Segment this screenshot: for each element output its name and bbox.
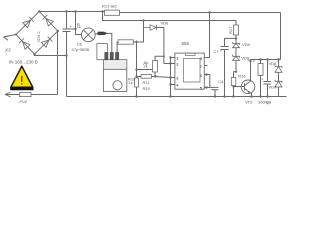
svg-text:C6: C6 <box>77 41 83 46</box>
svg-text:2к: 2к <box>144 64 148 69</box>
wire C6 stub <box>66 12 68 30</box>
capacitor C4 <box>210 87 219 89</box>
wire collector <box>250 60 252 82</box>
resistor R15 <box>258 64 263 76</box>
pin 4 <box>171 84 175 86</box>
wire lamp riser <box>76 12 82 35</box>
diode VD6 <box>144 25 157 30</box>
triac body <box>103 60 126 92</box>
svg-text:IN 160...230 В: IN 160...230 В <box>9 59 38 64</box>
IC inner block <box>184 59 201 83</box>
wire riser y20-y28 <box>143 21 145 28</box>
resistor R12 vertical <box>153 61 158 73</box>
svg-text:+: + <box>261 77 264 82</box>
svg-text:1к: 1к <box>129 80 133 85</box>
node R13 tap <box>101 10 103 12</box>
node R10 rail <box>135 95 137 97</box>
node C8 rail <box>266 95 268 97</box>
svg-text:VD9.2: VD9.2 <box>36 31 41 43</box>
resistor R16 <box>231 78 236 86</box>
zener VD8 <box>233 42 240 48</box>
svg-text:VD8: VD8 <box>242 42 251 47</box>
wire C4 down <box>214 90 216 97</box>
svg-text:+: + <box>70 24 73 29</box>
wire R15 to rail <box>260 76 262 97</box>
triac separator <box>103 68 126 70</box>
node Vcc <box>208 11 210 13</box>
svg-text:1: 1 <box>176 56 179 61</box>
wire VD9 down to R16 <box>234 61 237 78</box>
node C7 rail <box>223 95 225 97</box>
svg-text:47µ*350В: 47µ*350В <box>72 47 90 52</box>
corner dots <box>38 10 40 12</box>
resistor R17 <box>234 25 239 35</box>
wire C6 top plate to riser <box>71 28 76 30</box>
bridge diode lower-left <box>19 38 30 49</box>
svg-text:FU2: FU2 <box>20 99 28 104</box>
wire AC riser from right corner to fuse line <box>57 31 59 95</box>
wire R16 bottom <box>233 86 235 97</box>
svg-text:X3: X3 <box>4 47 11 52</box>
node C7 tap <box>235 37 237 39</box>
wire to VD10 <box>278 60 280 67</box>
wire R10 top <box>136 41 138 79</box>
ferrite bead arrow <box>98 32 108 35</box>
wire minus from bottom corner <box>35 54 67 55</box>
wire C8 down <box>267 84 269 97</box>
lamp EL circle <box>81 28 95 42</box>
wire emitter <box>250 93 252 97</box>
resistor R10 vertical <box>135 78 139 87</box>
pin 5 <box>204 87 210 89</box>
node on riser <box>74 28 76 30</box>
svg-text:C7: C7 <box>214 49 220 54</box>
node R11 right <box>154 75 156 77</box>
ground line <box>67 96 287 98</box>
node R10 y69.5 <box>135 68 137 70</box>
bridge diode lower-right <box>41 37 52 48</box>
pin 7 <box>204 65 207 67</box>
pin 3 <box>171 77 175 79</box>
wire y69.5 <box>137 69 153 71</box>
svg-text:3: 3 <box>176 76 179 81</box>
gnd bus <box>170 58 172 97</box>
wire C7 down <box>224 50 226 97</box>
pin 2 <box>171 63 175 65</box>
bridge diode upper-right <box>42 15 53 26</box>
capacitor C7 <box>221 47 229 50</box>
resistor R14 on gate wire <box>118 40 133 44</box>
resistor R11 horizontal <box>141 75 152 79</box>
bridge rectifier diamond <box>16 11 58 54</box>
wire pin6-pin5 link <box>209 75 211 88</box>
svg-text:2: 2 <box>176 62 179 67</box>
connector X3 arrow top <box>4 36 10 41</box>
IC notch <box>185 53 195 55</box>
node R15 <box>259 58 261 60</box>
+12V line y59.6 <box>251 59 281 61</box>
node C6 minus join <box>65 54 67 56</box>
svg-text:6: 6 <box>200 73 203 78</box>
svg-text:5: 5 <box>200 86 203 91</box>
wire pin6 ext <box>204 74 210 76</box>
svg-text:R10: R10 <box>143 86 151 91</box>
triac tab box <box>97 44 108 60</box>
pin 1 <box>171 57 175 59</box>
svg-text:R16: R16 <box>238 74 246 79</box>
wire R12 bottom <box>154 72 156 77</box>
resistor R13 <box>105 10 120 15</box>
zener VD10 <box>275 65 282 72</box>
wire bead to triac mid pin <box>108 33 112 52</box>
node bus rail <box>169 95 171 97</box>
svg-text:VD9: VD9 <box>269 85 278 90</box>
wire C8 riser <box>267 60 269 82</box>
capacitor C8 <box>264 82 272 85</box>
fuse FU2 <box>20 92 31 96</box>
node lamp riser <box>74 10 76 12</box>
triac top section fill <box>104 60 126 69</box>
node C6 rail <box>65 10 67 12</box>
triac lead stubs <box>105 52 119 59</box>
svg-text:Д6: Д6 <box>75 22 80 28</box>
svg-text:VD6: VD6 <box>161 21 170 26</box>
svg-text:C8: C8 <box>266 100 272 105</box>
svg-text:C4: C4 <box>218 79 224 84</box>
svg-text:R13 8к2: R13 8к2 <box>102 4 117 9</box>
node R16 rail <box>232 95 234 97</box>
pin 8 <box>204 57 209 59</box>
branch rail y20 <box>103 12 237 26</box>
wire R14 to VD6 riser <box>133 28 143 43</box>
svg-text:555: 555 <box>182 41 190 46</box>
svg-text:8: 8 <box>200 56 203 61</box>
wire lamp to bead <box>95 33 98 36</box>
wire R10 bottom <box>136 87 138 97</box>
node VD6 riser top <box>142 19 144 21</box>
svg-text:R11: R11 <box>143 80 150 85</box>
svg-text:+: + <box>220 48 223 53</box>
zener VD11 <box>275 80 282 87</box>
svg-text:VT2: VT2 <box>245 100 253 105</box>
warning triangle <box>11 66 33 87</box>
node R15 rail <box>259 95 261 97</box>
+rail <box>39 11 104 13</box>
triac right pin wire <box>117 42 118 52</box>
wire R17 to VD8 <box>235 35 237 43</box>
svg-text:7: 7 <box>200 64 203 69</box>
triac hole <box>113 81 122 90</box>
node emitter <box>250 95 252 97</box>
wire R11 left lead <box>137 76 142 78</box>
zener VD9 <box>233 55 240 61</box>
wire base <box>234 86 245 88</box>
svg-text:4: 4 <box>176 83 179 88</box>
wire VD10 to VD11 <box>278 72 280 81</box>
transistor VT2 <box>241 80 255 94</box>
wire Vcc riser to pin 8 <box>209 13 211 58</box>
bridge diode upper-left <box>23 17 34 28</box>
wire C7 tap from zener node <box>225 38 237 46</box>
wire input to bridge left corner <box>4 35 17 38</box>
wire +rail right corner down <box>280 13 282 60</box>
node zener chain <box>277 58 279 60</box>
wire VD11 down <box>278 87 280 97</box>
+rail after R13 <box>120 12 281 14</box>
svg-text:!: ! <box>20 76 23 88</box>
node C8 top <box>266 58 268 60</box>
wire VD6 out to bus <box>157 28 164 64</box>
bottom arrow X3 <box>5 92 11 97</box>
node R11 left <box>135 75 137 77</box>
wire R12 top to pin2 <box>155 56 164 60</box>
IC DA1 555 body <box>175 53 204 89</box>
pin 6 <box>204 74 210 76</box>
svg-text:VD8: VD8 <box>269 61 278 66</box>
fuse line <box>11 94 58 96</box>
capacitor C6 <box>63 29 71 32</box>
node R10 gate wire <box>135 41 137 43</box>
wire to pin3 <box>152 77 171 78</box>
node C4 rail <box>214 95 216 97</box>
svg-text:R17: R17 <box>228 26 233 34</box>
wire C6 down to ground line <box>66 32 68 97</box>
wire VD8 to VD9 <box>235 48 237 57</box>
lamp X <box>83 30 93 40</box>
node base <box>232 86 234 88</box>
svg-text:R15: R15 <box>248 58 256 63</box>
